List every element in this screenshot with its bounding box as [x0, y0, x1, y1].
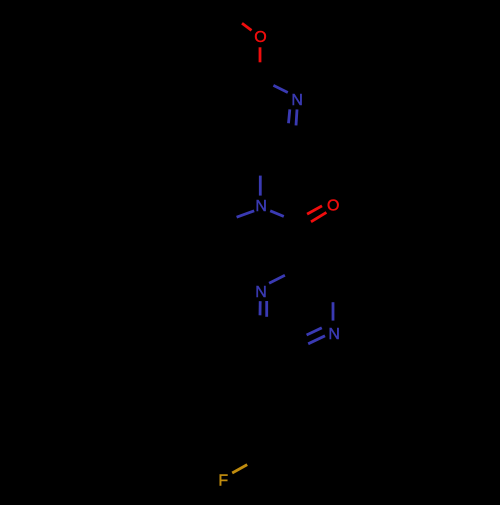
- wire: N1=C2 pyridine double bond main half (blue): [296, 109, 297, 125]
- wire: N1=C2 pyridine double bond inner half (blue): [289, 109, 290, 123]
- wire: phenyl C4'–F half-bond (gold): [232, 465, 247, 473]
- svg-text:O: O: [327, 198, 339, 215]
- svg-text:N: N: [255, 198, 267, 215]
- wire: C3 pyridine–N amide half-bond (blue, vertical): [259, 176, 262, 196]
- svg-text:N: N: [328, 326, 340, 343]
- wire: N4=C5 pyrazine double bond main half (blue): [308, 336, 325, 344]
- wire: C6–N1 pyridine half-bond (blue): [273, 85, 287, 92]
- svg-text:F: F: [218, 473, 228, 490]
- wire: C=O double bond inner half (red): [307, 206, 322, 214]
- svg-text:N: N: [291, 92, 303, 109]
- wire: N amide–carbonyl C half-bond (blue): [270, 211, 284, 217]
- wire: C3 pyrazine–N4 half-bond (blue, vertical): [332, 302, 335, 320]
- wire: N1=C6 pyrazine double bond main half (blue, vertical): [259, 301, 262, 315]
- wire: methyl C–O half-bond (red): [242, 23, 252, 30]
- wire: N1=C6 pyrazine double bond inner half (blue, vertical): [265, 301, 268, 317]
- wire: N amide–methyl half-bond (blue): [237, 211, 255, 217]
- svg-text:O: O: [254, 29, 266, 46]
- svg-text:N: N: [255, 284, 267, 301]
- wire: C=O double bond main half (red): [311, 212, 326, 221]
- wire: O–C6 pyridine half-bond (red, vertical): [259, 47, 262, 62]
- wire: N4=C5 pyrazine double bond inner half (blue): [307, 328, 322, 335]
- wire: C2 pyrazine–N1 pyrazine half-bond (blue): [269, 275, 285, 283]
